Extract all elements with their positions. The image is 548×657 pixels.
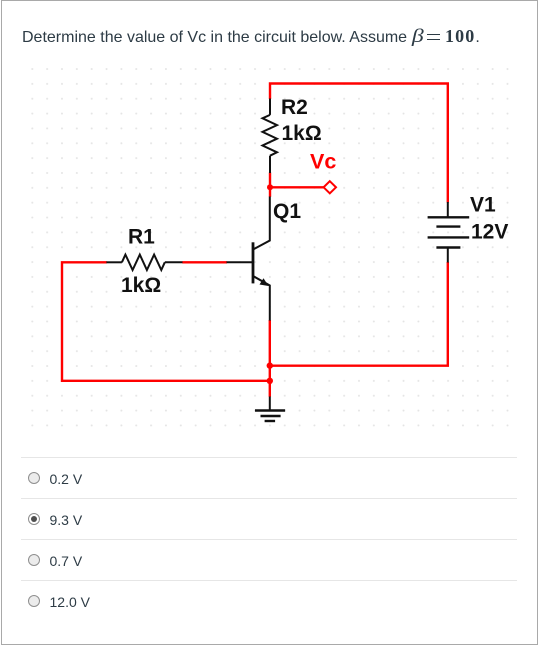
svg-text:1kΩ: 1kΩ [282,122,322,145]
svg-text:1kΩ: 1kΩ [121,274,161,297]
svg-text:Q1: Q1 [273,200,301,223]
svg-text:R2: R2 [281,96,308,119]
svg-text:12V: 12V [471,221,508,244]
svg-text:Vc: Vc [310,150,336,174]
svg-text:R1: R1 [128,225,155,248]
svg-text:V1: V1 [470,194,496,217]
